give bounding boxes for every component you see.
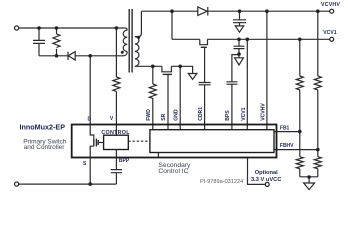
svg-text:SR: SR [161,113,167,120]
svg-text:VCV1: VCV1 [323,30,337,36]
svg-text:Optional: Optional [255,170,278,176]
svg-text:and Controller: and Controller [24,144,66,151]
svg-text:CDR1: CDR1 [198,107,204,121]
svg-text:VCVHV: VCVHV [321,2,340,8]
svg-text:3.3 V uVCC: 3.3 V uVCC [251,177,281,183]
svg-text:FBHV: FBHV [280,143,294,149]
svg-text:Control IC: Control IC [158,168,188,175]
svg-text:BPP: BPP [119,158,130,164]
svg-text:CONTROL: CONTROL [101,130,130,136]
svg-text:InnoMux2-EP: InnoMux2-EP [20,122,66,131]
svg-text:FB1: FB1 [280,126,290,132]
svg-text:FWD: FWD [146,109,152,121]
svg-text:PI-9789a-031224: PI-9789a-031224 [200,179,243,185]
svg-text:BPS: BPS [225,110,231,121]
svg-text:VCV1: VCV1 [241,107,247,120]
svg-text:D: D [88,117,92,123]
svg-text:GND: GND [174,109,180,121]
svg-text:VCVHV: VCVHV [260,103,266,121]
